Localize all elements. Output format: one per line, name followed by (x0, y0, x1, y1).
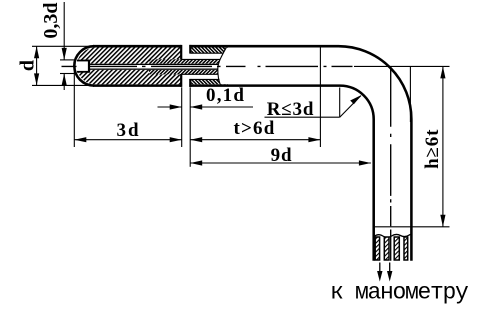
svg-text:3d: 3d (116, 120, 140, 141)
nose end face lower (180, 74, 182, 87)
inner tube outer surface line lower (181, 73, 218, 75)
stem tube lower wall (fine hatch band) (191, 79, 228, 84)
dimension 0,1d: right extension line (189, 87, 191, 167)
bore lower wall line (89, 69, 218, 70)
dimension h>=6t: upper extension line (354, 65, 450, 67)
stem front face upper (189, 45, 191, 54)
dimension 0,1d: left arrow segment (158, 106, 182, 108)
stem front face lower (189, 79, 191, 87)
dimension d: dimension line with arrows (36, 46, 38, 85)
dimension 0,3d: lower tick (60, 73, 76, 75)
inner tube lower wall (fine hatch band) (149, 70, 228, 75)
svg-text:t>6d: t>6d (233, 118, 275, 139)
svg-text:0,1d: 0,1d (206, 85, 245, 106)
svg-text:h≥6t: h≥6t (422, 129, 443, 169)
inner tube outer surface line upper (181, 58, 221, 60)
section break cut-off white (218, 48, 262, 84)
inner tube upper wall (fine hatch band) (149, 59, 228, 64)
dimension t>6d: right extension line (319, 46, 321, 147)
nose outline: cap arc (74, 46, 94, 85)
nose tip entrance hole (77, 61, 90, 72)
svg-text:9d: 9d (271, 145, 293, 166)
svg-text:R≤3d: R≤3d (267, 99, 314, 120)
stem/elbow outer outline (189, 46, 411, 261)
nose piece hatched body (77, 48, 181, 85)
dimension d: lower extension line (32, 84, 92, 86)
dimension R<=3d: shelf underline (265, 116, 340, 118)
dimension 0,1d: right arrow segment (190, 106, 253, 108)
dimension t>6d: dimension line with arrows (190, 139, 320, 141)
dimension h>=6t: lower extension line (373, 226, 450, 228)
bore upper wall line (89, 64, 218, 65)
stem/elbow inner outline (189, 86, 373, 261)
pipe break wavy line (374, 234, 412, 237)
vertical centerline (390, 67, 392, 261)
break hatch bar 2 (384, 237, 389, 260)
flow arrow 2 to manometer (389, 263, 391, 275)
stem inner surface line upper (191, 52, 224, 54)
svg-text:0,3d: 0,3d (40, 2, 62, 38)
stem inner surface line lower (191, 78, 220, 80)
break hatch bar 4 (404, 237, 408, 260)
dimension 0,3d: lower leader with arrow (63, 74, 65, 91)
bore slot white (89, 64, 223, 70)
dimension R<=3d: vertical link (339, 88, 341, 118)
nose end face upper (180, 45, 182, 60)
horizontal centerline (62, 65, 353, 67)
flow arrow 1 to manometer (379, 263, 381, 275)
extension line pipe right edge projection (409, 66, 411, 122)
svg-text:d: d (17, 60, 39, 71)
dimension 3d: left extension line (73, 68, 75, 147)
section break boundary line (218, 48, 226, 85)
dimension 9d: dimension line with arrows (190, 162, 371, 164)
dimension 0,3d: upper leader with arrow (63, 2, 65, 60)
stem tube upper wall (fine hatch band) (191, 47, 228, 53)
break hatch bar 3 (394, 237, 399, 260)
nose bottom edge (93, 84, 181, 87)
dimension R<=3d: leader arrow to inner bend (340, 96, 361, 117)
break hatch bar 1 (375, 237, 379, 260)
svg-text:к манометру: к манометру (330, 280, 469, 306)
dimension 0,3d: upper tick (60, 59, 76, 61)
dimension h>=6t: dimension line with arrows (442, 66, 444, 226)
nose top edge (93, 45, 181, 48)
dimension 3d: dimension line with arrows (74, 139, 181, 141)
dimension 0,1d: left extension line (181, 87, 183, 147)
dimension d: upper extension line (32, 45, 92, 47)
